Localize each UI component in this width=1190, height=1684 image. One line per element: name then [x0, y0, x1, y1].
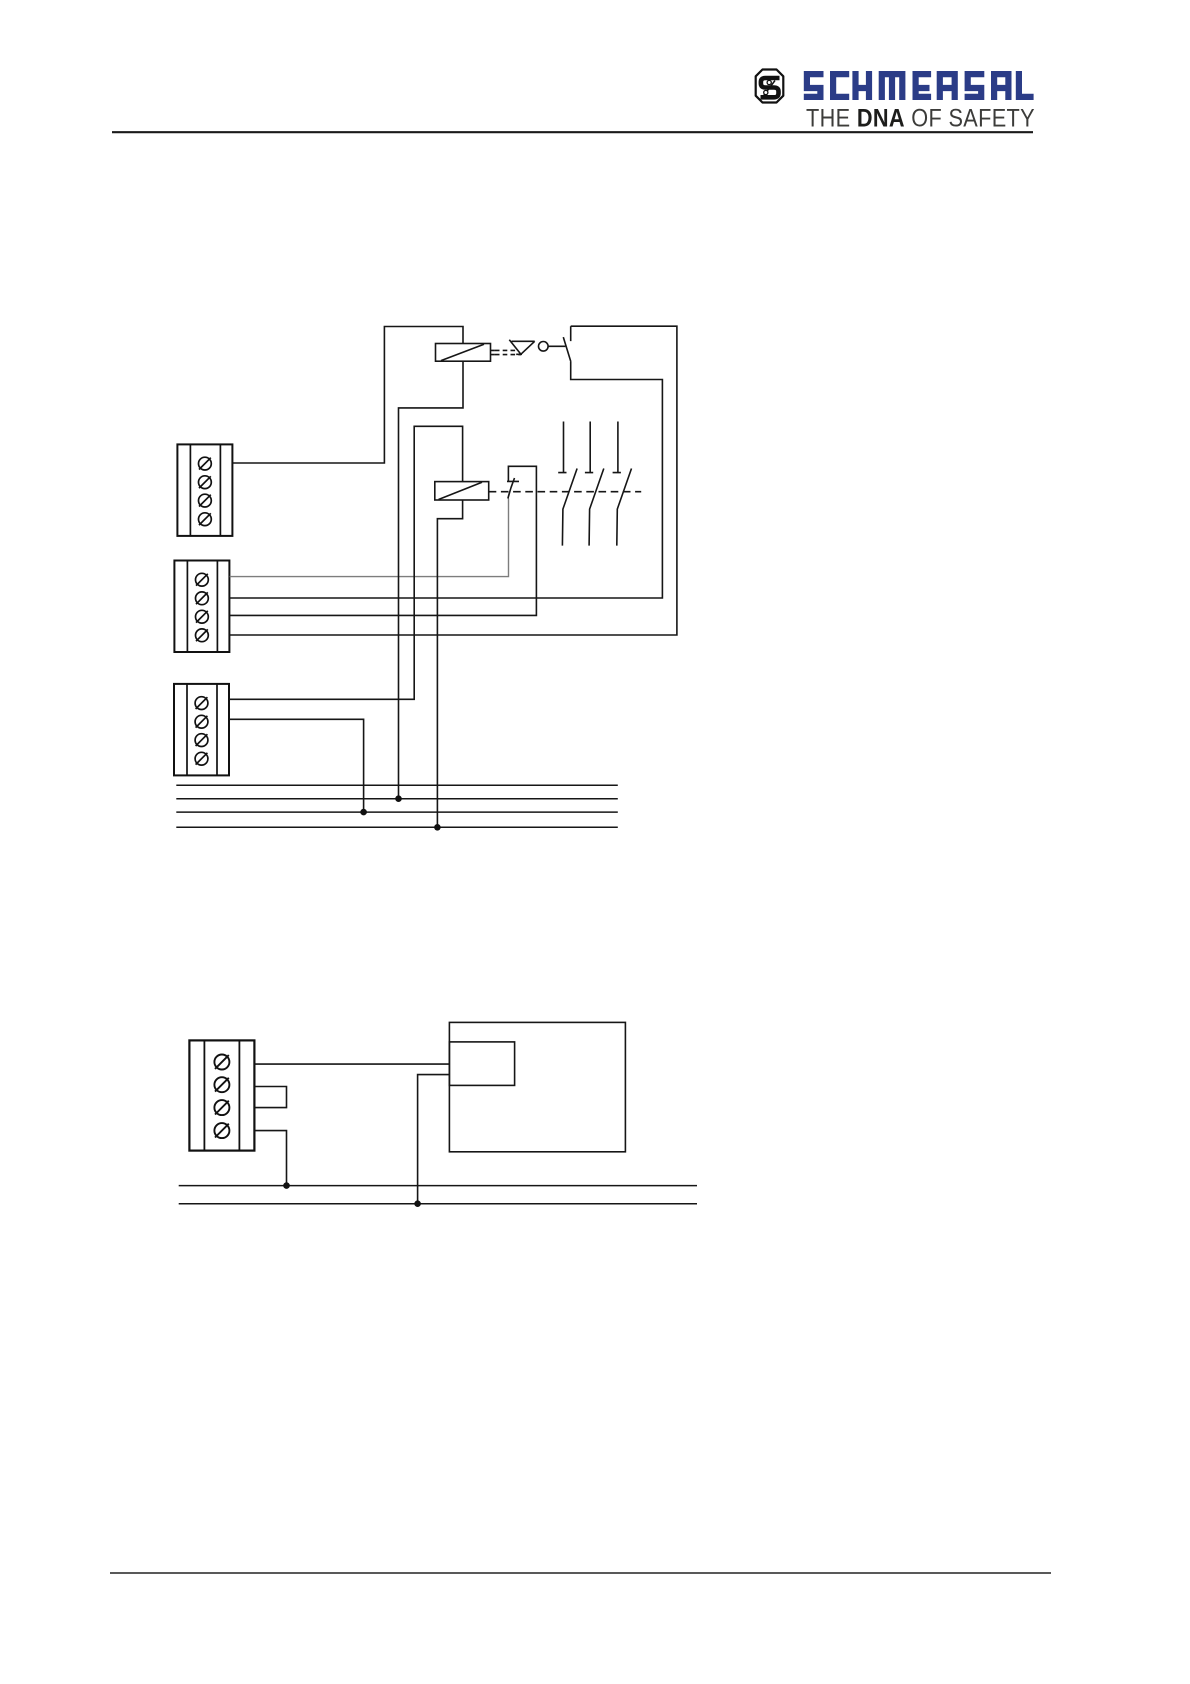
- contactor contact 3: [613, 422, 632, 546]
- bus line 3: [176, 811, 618, 813]
- wire switch bottom to X2.2: [230, 362, 663, 598]
- NC feedback contact of K1: [507, 478, 519, 499]
- relay coil K1: [436, 344, 491, 362]
- wire X2.1 to NC contact (gray): [230, 499, 509, 577]
- terminal block X3: [174, 684, 229, 776]
- footer rule: [110, 1572, 1051, 1574]
- contactor contact 2: [585, 422, 604, 546]
- wire unit to bus line B: [418, 1075, 450, 1204]
- Schmersal emblem logo: [756, 70, 784, 103]
- jumper bracket X4.2-X4.3: [254, 1087, 286, 1108]
- top rule: [112, 131, 1033, 133]
- wire K1 coil bottom to bus 2: [399, 361, 464, 799]
- bus line 4: [176, 826, 618, 828]
- bus line A: [179, 1185, 697, 1187]
- bus line 1: [176, 784, 618, 786]
- junction dot bus B: [414, 1200, 421, 1207]
- K2 mechanical dashed line to contactor: [489, 491, 642, 493]
- wire X3.1 to relay K2 coil top: [229, 426, 462, 699]
- bus line B: [179, 1203, 697, 1205]
- wire X3.2 to bus 3: [229, 719, 363, 812]
- wire X4.1 to unit: [254, 1063, 449, 1065]
- junction dot bus2: [395, 795, 402, 802]
- terminal block X1: [177, 444, 232, 536]
- terminal block X2: [174, 561, 229, 653]
- junction dot bus3: [360, 809, 367, 816]
- svg-text:THE DNA OF SAFETY: THE DNA OF SAFETY: [806, 106, 1035, 133]
- inner connector notch: [449, 1042, 514, 1086]
- wire K2 coil bottom to bus 4: [437, 500, 462, 827]
- junction dot bus A: [283, 1182, 290, 1189]
- control unit box: [449, 1022, 625, 1151]
- K1 coil stubs: [491, 350, 495, 354]
- SCHMERSAL wordmark: [804, 71, 1034, 100]
- junction dot bus4: [434, 824, 441, 831]
- reset switch contact: [563, 326, 571, 362]
- bus line 2: [176, 798, 618, 800]
- wire X2.3 to NC contact fixed terminal: [230, 466, 537, 615]
- wire button to switch blade: [548, 345, 565, 347]
- manual actuator triangle: [509, 340, 534, 355]
- wire X4.4 to bus line A: [254, 1131, 286, 1186]
- contactor contact 1: [558, 422, 577, 546]
- terminal block X4: [189, 1040, 254, 1150]
- reset button circle: [539, 342, 549, 352]
- wire switch top to X2.4: [230, 326, 677, 635]
- K1 mechanical dashed link: [495, 350, 521, 354]
- wire X1.1 to relay K1 coil top: [232, 327, 463, 464]
- relay coil K2: [435, 482, 489, 500]
